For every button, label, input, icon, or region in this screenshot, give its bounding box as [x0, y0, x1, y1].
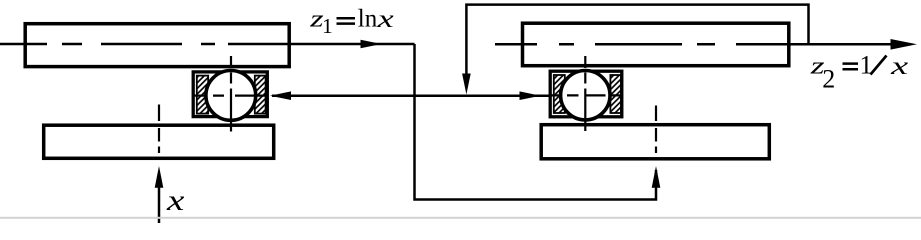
arrowhead z2 output (pointing right) — [891, 39, 918, 50]
arrowhead feedback into right lower rack (pointing up) — [652, 166, 661, 188]
bearing housing (right unit) — [550, 71, 622, 117]
upper rack (left unit) — [25, 24, 289, 67]
svg-text:x: x — [166, 183, 185, 217]
svg-text:x: x — [890, 52, 909, 80]
upper rack (right unit) — [523, 23, 789, 65]
wire: centerline through left lower rack (dash-dot) — [158, 105, 160, 154]
hatched bearing block left (left unit) — [197, 76, 208, 114]
roller wheel (right unit) — [561, 71, 610, 120]
wire: top feedback loop from z2 line to roller link — [466, 5, 808, 77]
wire: centerline through right lower rack (dash-dot) — [655, 106, 657, 154]
svg-text:x: x — [376, 4, 393, 32]
wire: z1 feedback line down, across bottom, up to right lower rack — [415, 44, 657, 200]
wire: double-headed link between the two rollers — [272, 94, 551, 97]
svg-text:ln: ln — [358, 6, 378, 33]
arrowhead z1 output (pointing right) — [361, 40, 382, 49]
svg-text:1: 1 — [860, 51, 873, 80]
arrowhead top loop (pointing down) — [462, 74, 471, 95]
wire: vertical centerline of right roller (dash-dot) — [584, 56, 586, 131]
hatched bearing block left (right unit) — [554, 75, 565, 113]
lower rack (left unit) — [44, 125, 274, 158]
faint scan line at page bottom — [0, 217, 921, 219]
hatched bearing block right (left unit) — [255, 76, 266, 114]
wire: horizontal centerline of left roller (dash-dot) — [193, 94, 267, 96]
wire: centerline of right upper rack (dash-dot, with z2 output) — [495, 43, 892, 46]
wire: centerline of left upper rack (dash-dot, from image left edge) — [0, 43, 415, 46]
arrowhead roller link left (pointing left) — [270, 91, 291, 100]
label z1 = ln x — [309, 4, 394, 38]
arrowhead input x (pointing up) — [155, 166, 164, 188]
roller wheel (left unit) — [206, 71, 256, 121]
bearing housing (left unit) — [193, 72, 267, 117]
svg-text:2: 2 — [822, 65, 835, 94]
wire: horizontal centerline of right roller (dash-dot) — [551, 94, 621, 96]
label z2 = 1/x — [810, 51, 909, 94]
arrowhead roller link right (pointing right) — [520, 91, 541, 100]
wire: vertical centerline of left roller (dash-dot) — [230, 56, 232, 132]
svg-text:1: 1 — [322, 14, 333, 38]
lower rack (right unit) — [541, 125, 769, 159]
wire: input x arrow line — [158, 184, 161, 223]
hatched bearing block right (right unit) — [610, 75, 621, 113]
